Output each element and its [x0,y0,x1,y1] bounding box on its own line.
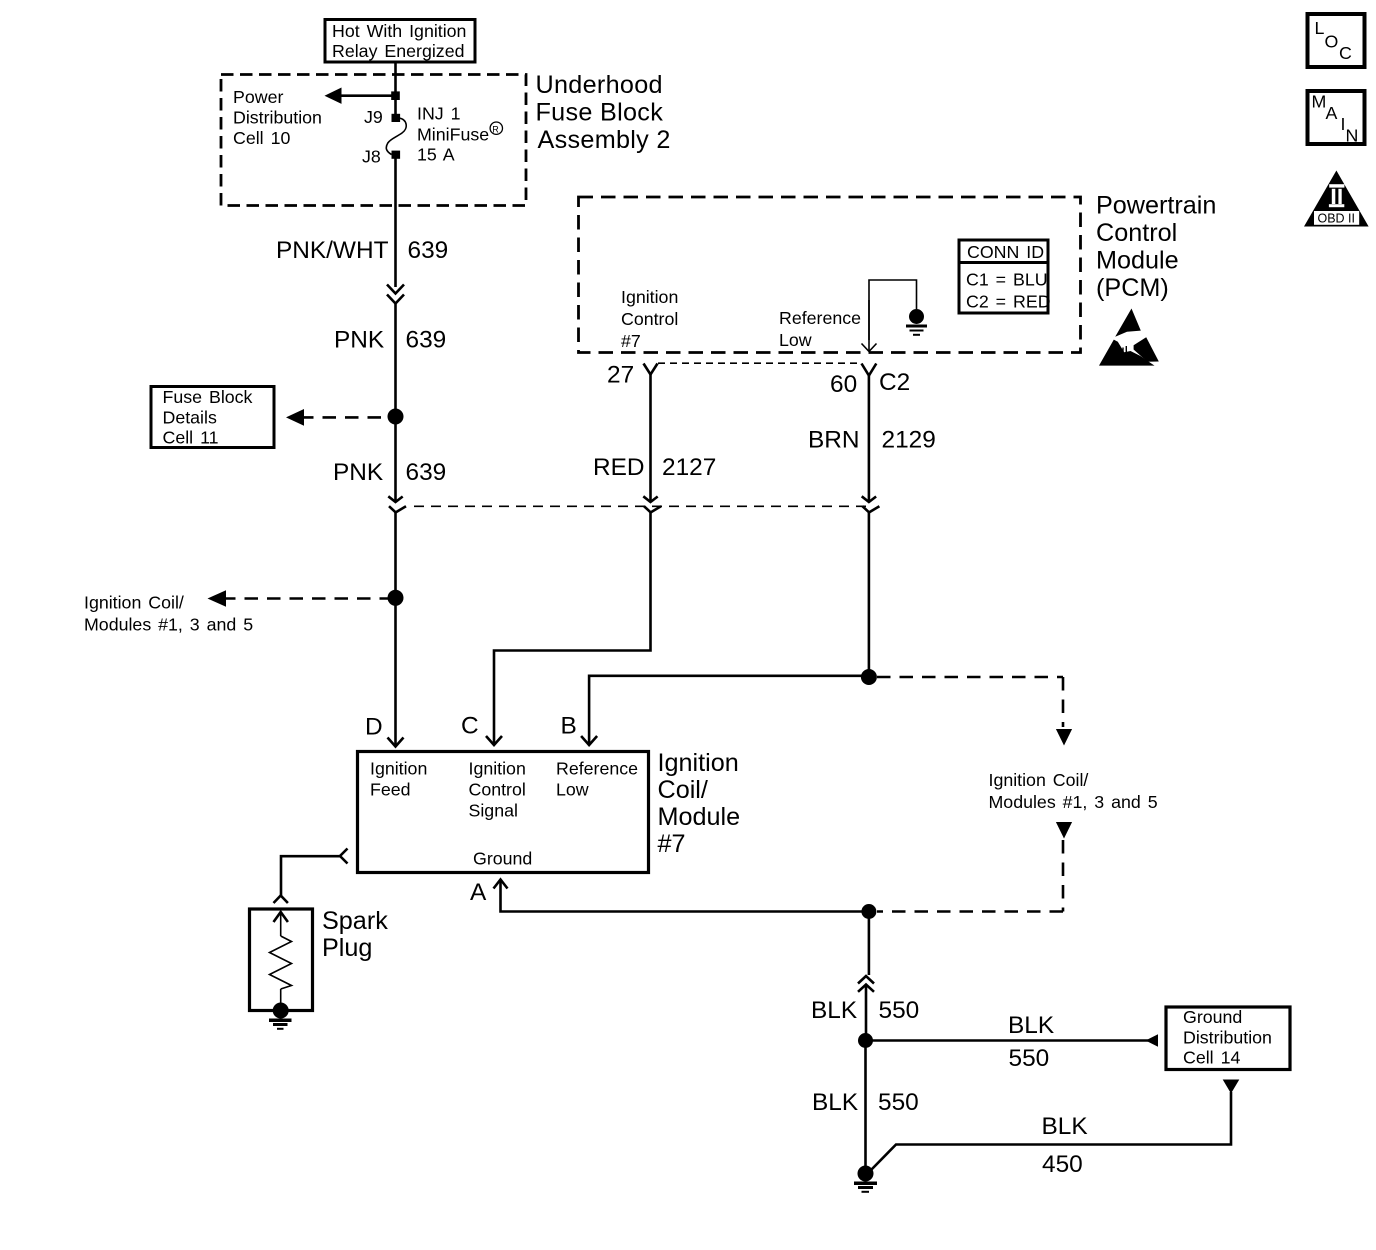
label: Underhood Fuse Block Assembly 2 [536,71,671,154]
wire to B pin [589,676,869,745]
svg-text:Ignition Coil/: Ignition Coil/ [84,593,184,613]
svg-text:Coil/: Coil/ [658,776,708,804]
label: Ignition Coil/ Modules #1, 3 and 5 (left) [84,593,253,635]
svg-text:15 A: 15 A [417,145,455,165]
PCM internal reference-low ground wire [862,280,917,352]
svg-text:C2 = RED: C2 = RED [966,292,1051,312]
thin dashed connector line between pins 27 and 60 [658,362,861,364]
pin D label and arrowhead [365,714,404,747]
svg-text:Fuse Block: Fuse Block [536,99,664,127]
spark plug internals: lead to ground [280,989,282,1010]
svg-text:Control: Control [1096,219,1177,247]
wire BRN 2129 (vertical from pin 60) [868,376,871,503]
junction dot to Fuse Block Details [388,409,404,425]
svg-text:450: 450 [1042,1151,1083,1178]
svg-text:PNK/WHT: PNK/WHT [276,237,389,264]
svg-text:Reference: Reference [556,759,638,779]
wire PNK 639 (middle segment) [394,302,397,502]
spark plug internals: gap arrow [274,912,288,936]
svg-text:639: 639 [408,237,449,264]
connector chevrons PNK at dashed line [388,496,406,512]
spark plug box [250,909,313,1011]
dashed arrow to Fuse Block Details box [286,409,392,426]
svg-text:Ignition: Ignition [621,287,678,307]
spark plug ground symbol [269,1020,292,1029]
flag box: Hot With Ignition Relay Energized [325,20,475,63]
svg-text:N: N [1346,126,1359,146]
OBD II icon [1304,171,1369,227]
pin J9 [364,107,400,127]
label: Ignition Feed (in coil box) [370,759,427,800]
connector chevrons BRN at dashed line [862,496,880,512]
svg-text:550: 550 [1009,1045,1050,1072]
svg-text:Modules #1, 3 and 5: Modules #1, 3 and 5 [84,615,253,635]
junction dot ground branch [861,904,876,919]
svg-text:Powertrain: Powertrain [1096,192,1216,220]
svg-text:Cell 11: Cell 11 [163,428,219,448]
arrow to Power Distribution [325,88,400,104]
label: Ignition Control Signal (in coil box) [469,759,526,821]
spark plug connector chevron [274,896,288,904]
pin A label and arrowhead [470,879,508,906]
wire BLK 550 (junction down to connector) [868,912,871,976]
label: Spark Plug [322,907,388,962]
svg-text:MiniFuse: MiniFuse [417,125,489,145]
svg-text:Ignition: Ignition [370,759,427,779]
svg-text:2127: 2127 [662,454,716,481]
svg-text:J8: J8 [362,147,381,167]
inline connector row: dashed line at y 506 [414,505,869,507]
wire BRN to junction [868,513,871,678]
svg-text:Spark: Spark [322,907,388,935]
svg-text:Low: Low [779,330,812,350]
wire: feed from Hot box down into fuse block [394,62,397,116]
pin 27 [607,362,658,389]
PCM dashed box [579,197,1081,353]
ground dot (bottom) [858,1166,874,1182]
svg-text:BLK: BLK [811,997,857,1024]
label: INJ 1 MiniFuse (R) 15 A [417,104,502,165]
svg-text:Reference: Reference [779,308,861,328]
label: Reference Low (in coil box) [556,759,638,800]
svg-text:Control: Control [621,309,678,329]
label BLK 550 (upper) [811,997,919,1024]
svg-text:Ground: Ground [473,849,532,869]
svg-text:BLK: BLK [1042,1113,1088,1140]
fuse INJ 1 MiniFuse 15 A (S-curve element) [386,118,406,155]
svg-text:Power: Power [233,87,283,107]
label BLK 450 [1042,1113,1088,1178]
label: Ignition Control #7 (inside PCM) [621,287,678,351]
dashed branch to Ignition Coil/Modules #1,3,5 (right) [877,677,1072,912]
box: Ignition Coil/Module #7 [358,752,649,873]
pin J8 [362,147,400,167]
svg-text:Module: Module [658,803,741,831]
label: Reference Low (inside PCM) [779,308,861,350]
svg-text:BLK: BLK [812,1089,858,1116]
svg-text:Ignition: Ignition [469,759,526,779]
svg-text:Distribution: Distribution [1183,1027,1272,1047]
svg-text:Feed: Feed [370,780,411,800]
svg-text:Module: Module [1096,247,1179,275]
MAIN icon [1308,91,1365,146]
svg-text:BRN: BRN [808,427,860,454]
svg-text:2129: 2129 [882,427,936,454]
label: Powertrain Control Module (PCM) [1096,192,1216,303]
svg-text:60: 60 [830,371,857,398]
pin B label and arrowhead [561,713,598,746]
svg-text:Cell 14: Cell 14 [1183,1048,1240,1068]
LOC icon [1308,14,1365,67]
svg-text:INJ 1: INJ 1 [417,104,461,124]
svg-text:550: 550 [878,1089,919,1116]
svg-text:O: O [1325,32,1339,52]
svg-text:#7: #7 [658,830,686,858]
svg-text:Details: Details [163,407,217,427]
label PNK/WHT 639 [276,237,448,264]
label RED 2127 [593,454,716,481]
pin 60 / C2 [830,364,910,399]
svg-text:Signal: Signal [469,801,518,821]
box: Ground Distribution Cell 14 [1166,1007,1290,1070]
label BRN 2129 [808,427,936,454]
svg-text:R: R [492,124,499,134]
wire BLK 550 vertical (lower) [864,1041,867,1173]
svg-text:L: L [1315,18,1325,38]
svg-text:639: 639 [406,327,447,354]
svg-text:A: A [470,879,487,906]
svg-text:Control: Control [469,780,526,800]
svg-text:Low: Low [556,780,589,800]
svg-text:A: A [1326,103,1338,123]
svg-text:D: D [365,714,383,741]
svg-text:Ignition: Ignition [658,749,739,777]
svg-text:550: 550 [879,997,920,1024]
svg-text:C: C [461,713,479,740]
wire BLK 550 (connector to junction dot) [865,985,868,1041]
svg-text:Ignition Coil/: Ignition Coil/ [989,770,1089,790]
wire from coil to spark plug [281,856,340,895]
svg-text:PNK: PNK [334,327,384,354]
junction dot BRN [861,669,877,685]
CONN ID table [959,240,1051,313]
svg-text:Fuse Block: Fuse Block [163,387,253,407]
svg-text:Underhood: Underhood [536,71,663,99]
svg-text:J9: J9 [364,107,383,127]
svg-text:(PCM): (PCM) [1096,274,1169,302]
dashed box: Underhood Fuse Block Assembly 2 [221,75,526,206]
svg-text:Plug: Plug [322,934,372,962]
svg-text:Modules #1, 3 and 5: Modules #1, 3 and 5 [989,792,1158,812]
wire BLK 550 horizontal to Ground Distribution [866,1034,1159,1047]
inline connector chevrons (pointing up) [858,976,874,992]
svg-text:Hot With Ignition: Hot With Ignition [332,21,466,41]
wire RED 2127 (vertical from pin 27) [649,375,652,503]
svg-text:Ground: Ground [1183,1007,1242,1027]
label: Power Distribution Cell 10 [233,87,322,148]
label BLK 550 (horizontal wire) [1008,1012,1054,1072]
svg-text:Assembly 2: Assembly 2 [538,126,671,154]
svg-text:M: M [1312,92,1327,112]
box: Fuse Block Details Cell 11 [151,387,274,448]
secondary coil chevron at box left edge [340,849,348,864]
svg-text:#7: #7 [621,331,641,351]
svg-text:RED: RED [593,454,645,481]
spark plug internals: resistor zigzag [270,936,292,989]
svg-text:B: B [561,713,577,740]
wire from pin A to ground junction [501,880,869,912]
PCM internal ground symbol [906,309,927,335]
ESD symbol [1099,309,1159,366]
label BLK 550 (lower) [812,1089,919,1116]
svg-text:Distribution: Distribution [233,108,322,128]
connector chevrons RED at dashed line [643,496,661,512]
dashed arrow to Ignition Coil/Modules #1,3,5 (left) [208,590,393,607]
inline connector on PNK wire (double chevron) [387,285,404,304]
junction dot to Ignition Coil Modules (left) [388,590,404,606]
svg-text:27: 27 [607,362,634,389]
svg-text:OBD II: OBD II [1318,211,1356,225]
svg-text:PNK: PNK [333,459,383,486]
svg-text:639: 639 [406,459,447,486]
ground symbol (bottom) [854,1183,877,1192]
svg-text:C1 = BLU: C1 = BLU [966,270,1048,290]
svg-text:Relay Energized: Relay Energized [332,41,464,61]
svg-text:BLK: BLK [1008,1012,1054,1039]
svg-text:C2: C2 [879,369,910,396]
label PNK 639 (lower) [333,459,446,486]
svg-text:Cell 10: Cell 10 [233,128,290,148]
wire PNK to D pin [394,513,397,748]
pin C label and arrowhead [461,713,502,746]
wire RED to C pin [494,513,651,746]
spark plug ground dot [273,1003,289,1019]
label PNK 639 [334,327,446,354]
wire BLK 450 (ground to Ground Distribution) [872,1080,1240,1170]
wire PNK/WHT 639 [394,158,397,287]
junction dot BLK distribution [858,1033,873,1048]
svg-text:C: C [1339,43,1352,63]
label: Ignition Coil/ Modules #1, 3 and 5 (right) [989,770,1158,812]
svg-text:CONN ID: CONN ID [967,242,1044,262]
label: Ignition Coil/ Module #7 [658,749,741,858]
